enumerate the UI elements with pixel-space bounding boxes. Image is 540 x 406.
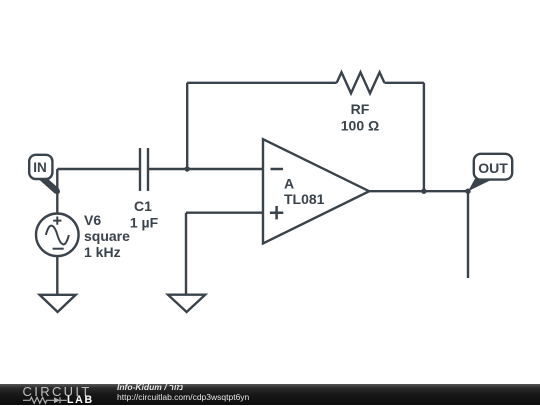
op-amp U A TL081 bbox=[263, 139, 369, 243]
wire feedback top horizontal bbox=[187, 82, 337, 84]
capacitor C1 bbox=[140, 148, 148, 191]
wire feedback vertical left bbox=[186, 83, 188, 169]
wire feedback vertical right down to output bbox=[423, 83, 425, 191]
footer bar bbox=[0, 384, 540, 405]
ground under V6 bbox=[40, 295, 76, 312]
logo CIRCUIT bbox=[23, 385, 92, 398]
node IN flag bbox=[29, 155, 57, 192]
svg-text:100 Ω: 100 Ω bbox=[341, 117, 379, 133]
wire IN node down to V6 top bbox=[56, 169, 58, 214]
voltage source V6 bbox=[36, 214, 79, 257]
label V6 square 1 kHz bbox=[84, 212, 130, 260]
wire C1 to feedback junction bbox=[148, 168, 187, 170]
resistor RF bbox=[337, 72, 385, 93]
node OUT junction dot bbox=[465, 189, 470, 194]
label RF 100 Ohm bbox=[341, 101, 379, 134]
wire noninverting input down to ground bbox=[185, 213, 187, 295]
wire IN node to C1 (horizontal) bbox=[57, 168, 140, 170]
svg-text:V6: V6 bbox=[84, 212, 101, 228]
ground under op-amp input bbox=[168, 295, 205, 312]
svg-text:OUT: OUT bbox=[478, 160, 508, 176]
label C1 1 uF bbox=[130, 198, 159, 231]
credit line 1 bbox=[117, 383, 183, 392]
node IN junction dot bbox=[55, 189, 60, 194]
wire op-amp noninverting input bbox=[186, 211, 263, 213]
logo LAB bbox=[67, 395, 94, 406]
svg-text:C1: C1 bbox=[134, 198, 152, 214]
wire V6 bottom to ground bbox=[56, 256, 58, 295]
wire op-amp output to OUT bbox=[369, 190, 468, 192]
svg-text:1 kHz: 1 kHz bbox=[84, 244, 121, 260]
logo resistor-diode glyph bbox=[23, 396, 67, 405]
wire junction to op-amp inverting input bbox=[187, 168, 263, 170]
svg-text:A: A bbox=[284, 176, 294, 192]
svg-text:TL081: TL081 bbox=[284, 191, 325, 207]
label A TL081 bbox=[284, 176, 325, 207]
svg-text:1 µF: 1 µF bbox=[130, 215, 159, 231]
wire RF to feedback right corner bbox=[384, 82, 424, 84]
credit line 2 bbox=[117, 393, 249, 402]
node feedback junction dot bbox=[185, 166, 190, 171]
node OUT flag bbox=[468, 154, 512, 191]
wire OUT stub down bbox=[467, 191, 469, 278]
svg-text:RF: RF bbox=[351, 101, 370, 117]
node feedback-output junction dot bbox=[421, 189, 426, 194]
svg-text:IN: IN bbox=[33, 160, 47, 175]
svg-text:square: square bbox=[84, 228, 130, 244]
